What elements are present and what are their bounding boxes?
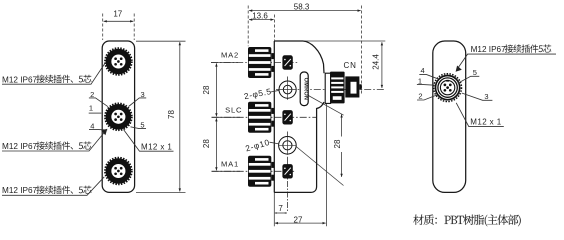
svg-text:OMRON: OMRON [302, 78, 308, 100]
svg-text:28: 28 [202, 85, 211, 94]
svg-text:5: 5 [473, 68, 477, 77]
svg-text:27: 27 [294, 215, 303, 224]
svg-text:M12 IP67: M12 IP67 [2, 142, 37, 151]
svg-text:MA1: MA1 [221, 160, 239, 169]
svg-text:7: 7 [278, 204, 283, 213]
svg-text:M12 x 1: M12 x 1 [470, 117, 501, 126]
svg-text:M12 IP67: M12 IP67 [2, 75, 37, 84]
svg-text:M12 IP67: M12 IP67 [471, 45, 506, 54]
svg-text:17: 17 [113, 10, 122, 19]
svg-text:SLC: SLC [225, 105, 242, 114]
svg-text:4: 4 [421, 66, 425, 75]
svg-text:1: 1 [89, 104, 93, 113]
svg-text:3: 3 [484, 92, 488, 101]
svg-text:58.3: 58.3 [294, 2, 310, 11]
svg-text:M12 IP67: M12 IP67 [2, 186, 37, 195]
svg-text:28: 28 [202, 139, 211, 148]
svg-text:24.4: 24.4 [372, 54, 381, 70]
svg-text:2: 2 [418, 92, 422, 101]
svg-text:2-φ5.5: 2-φ5.5 [243, 86, 272, 101]
svg-text:28: 28 [333, 139, 342, 148]
svg-text:MA2: MA2 [221, 50, 239, 59]
svg-text:CN: CN [344, 61, 357, 70]
svg-text:13.6: 13.6 [252, 11, 268, 20]
svg-text:M12 x 1: M12 x 1 [141, 142, 172, 151]
svg-text:2-φ10: 2-φ10 [244, 137, 271, 154]
svg-text:78: 78 [167, 110, 176, 119]
